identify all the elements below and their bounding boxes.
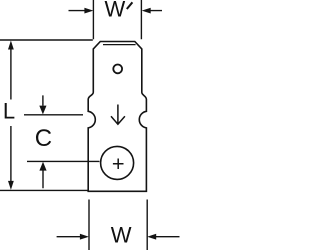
svg-text:C: C [35,125,52,152]
svg-text:L: L [3,99,15,124]
svg-text:W: W [105,0,126,22]
svg-text:W: W [111,223,132,248]
